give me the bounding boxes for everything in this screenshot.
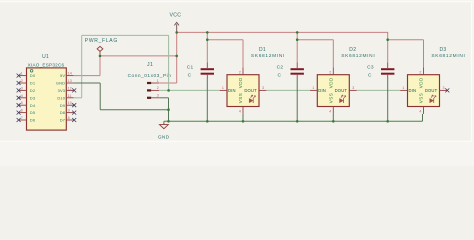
svg-text:2: 2: [157, 86, 159, 90]
svg-text:D9: D9: [60, 103, 66, 108]
svg-text:C: C: [368, 73, 372, 79]
svg-text:7: 7: [21, 116, 23, 120]
svg-text:DOUT: DOUT: [335, 88, 348, 93]
svg-text:D4: D4: [30, 103, 36, 108]
svg-text:DOUT: DOUT: [425, 88, 438, 93]
svg-text:2: 2: [329, 70, 331, 74]
svg-text:C: C: [278, 73, 282, 79]
svg-text:13: 13: [68, 79, 72, 83]
svg-text:5: 5: [21, 101, 23, 105]
svg-text:GND: GND: [158, 135, 170, 141]
svg-text:2: 2: [239, 70, 241, 74]
svg-text:3: 3: [352, 86, 354, 90]
svg-text:4: 4: [419, 109, 421, 113]
svg-text:14: 14: [68, 72, 72, 76]
svg-text:VDD: VDD: [419, 77, 424, 88]
svg-text:D2: D2: [30, 88, 36, 93]
svg-text:D5: D5: [30, 110, 36, 115]
svg-text:D7: D7: [60, 118, 66, 123]
svg-text:1: 1: [402, 86, 404, 90]
svg-text:3: 3: [443, 86, 445, 90]
svg-text:3V3: 3V3: [58, 88, 66, 93]
svg-text:C: C: [188, 73, 192, 79]
svg-text:D8: D8: [60, 110, 66, 115]
svg-text:Conn_01x03_Pin: Conn_01x03_Pin: [128, 73, 172, 79]
svg-text:DIN: DIN: [318, 88, 326, 93]
svg-text:GND: GND: [56, 81, 65, 86]
svg-text:VDD: VDD: [328, 77, 333, 88]
svg-text:9: 9: [68, 109, 70, 113]
svg-text:D1: D1: [259, 47, 266, 53]
svg-text:D10: D10: [57, 95, 65, 100]
svg-text:SK6812MINI: SK6812MINI: [251, 53, 285, 59]
svg-text:3: 3: [157, 94, 159, 98]
svg-text:C1: C1: [187, 65, 194, 71]
svg-text:D3: D3: [30, 95, 36, 100]
svg-text:DIN: DIN: [409, 88, 417, 93]
svg-text:3: 3: [21, 86, 23, 90]
svg-text:11: 11: [68, 94, 72, 98]
svg-text:1: 1: [21, 72, 23, 76]
svg-text:DIN: DIN: [228, 88, 236, 93]
svg-text:2: 2: [419, 70, 421, 74]
svg-text:C2: C2: [277, 65, 284, 71]
svg-text:D3: D3: [440, 47, 447, 53]
svg-text:J1: J1: [147, 62, 153, 68]
svg-text:D0: D0: [30, 73, 36, 78]
svg-text:VSS: VSS: [238, 93, 243, 104]
svg-text:XIAO_ESP32C6: XIAO_ESP32C6: [28, 62, 65, 67]
svg-text:D2: D2: [349, 47, 356, 53]
svg-text:VCC: VCC: [169, 13, 181, 19]
svg-text:DOUT: DOUT: [244, 88, 257, 93]
svg-text:D6: D6: [30, 118, 36, 123]
svg-text:2: 2: [21, 79, 23, 83]
svg-text:6: 6: [21, 109, 23, 113]
svg-text:10: 10: [68, 101, 72, 105]
svg-text:8: 8: [68, 116, 70, 120]
svg-text:VSS: VSS: [419, 93, 424, 104]
svg-text:4: 4: [329, 109, 331, 113]
svg-text:SK6812MINI: SK6812MINI: [341, 53, 375, 59]
svg-text:U1: U1: [42, 54, 49, 60]
svg-text:1: 1: [222, 86, 224, 90]
svg-text:4: 4: [239, 109, 241, 113]
svg-text:12: 12: [68, 86, 72, 90]
svg-text:VDD: VDD: [238, 77, 243, 88]
svg-text:4: 4: [21, 94, 23, 98]
svg-text:PWR_FLAG: PWR_FLAG: [85, 38, 118, 44]
svg-text:D1: D1: [30, 81, 36, 86]
svg-text:SK6812MINI: SK6812MINI: [431, 53, 465, 59]
svg-text:1: 1: [157, 79, 159, 83]
svg-text:C3: C3: [367, 65, 374, 71]
svg-text:3: 3: [262, 86, 264, 90]
svg-text:VSS: VSS: [328, 93, 333, 104]
svg-text:5V: 5V: [60, 73, 65, 78]
svg-text:1: 1: [312, 86, 314, 90]
